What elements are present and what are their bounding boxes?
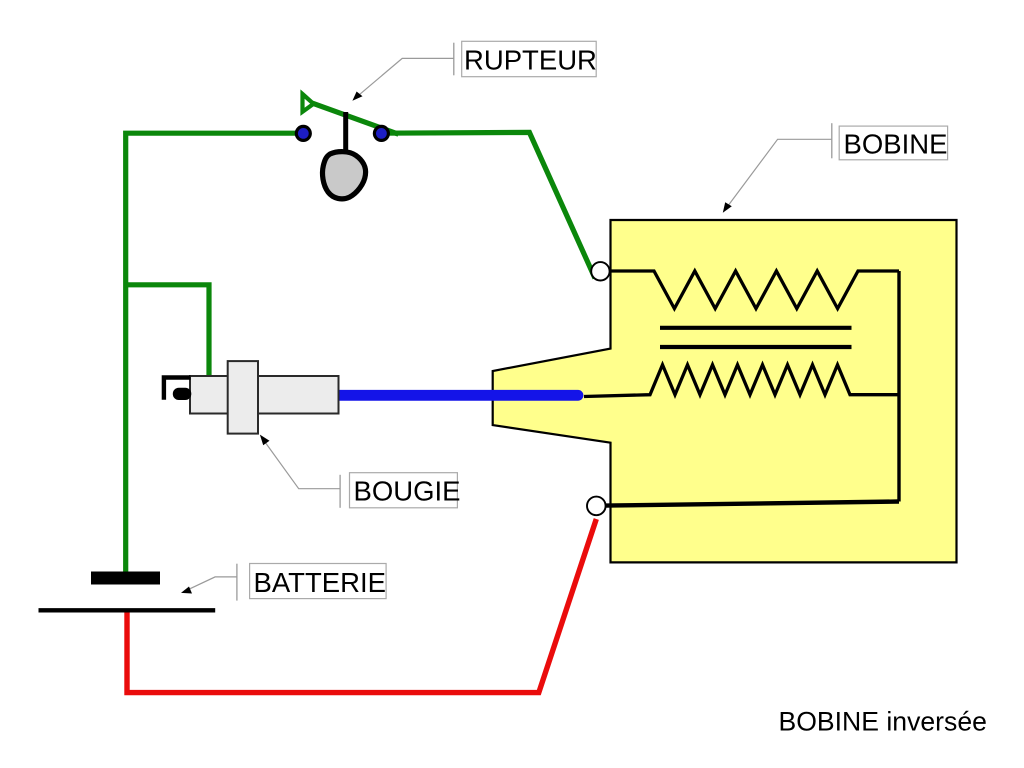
core line lower — [660, 345, 852, 349]
spark plug center electrode — [173, 388, 192, 400]
label RUPTEUR tick — [453, 43, 455, 76]
label BOBINE box — [839, 126, 947, 160]
battery positive plate (thick) — [91, 572, 160, 585]
cam follower rod (black) — [343, 112, 348, 154]
battery negative plate (thin) — [39, 608, 216, 612]
label BATTERIE box — [250, 564, 387, 599]
breaker lever arm (green) — [313, 103, 399, 134]
coil body (BOBINE yellow box with funnel) — [493, 220, 957, 562]
high tension lead (blue) — [340, 390, 579, 401]
label BATTERIE leader arrowhead — [181, 587, 192, 594]
label BOUGIE leader line — [261, 437, 340, 489]
label RUPTEUR leader arrowhead — [352, 92, 362, 101]
label BOUGIE leader arrowhead — [260, 435, 270, 446]
wire: green branch to spark plug — [124, 285, 210, 379]
svg-text:BOUGIE: BOUGIE — [354, 476, 461, 507]
label BATTERIE tick — [236, 564, 238, 601]
spark plug body — [190, 376, 339, 414]
spark plug ground electrode hook — [164, 378, 191, 400]
label RUPTEUR leader line — [354, 58, 454, 99]
coil top terminal (circle) — [591, 262, 609, 280]
breaker pivot triangle — [303, 94, 314, 112]
core line upper — [660, 326, 852, 330]
svg-text:BOBINE inversée: BOBINE inversée — [779, 707, 987, 737]
label BATTERIE leader line — [185, 577, 237, 591]
svg-text:BOBINE: BOBINE — [844, 129, 948, 160]
svg-text:BATTERIE: BATTERIE — [254, 567, 386, 598]
coil bottom wire to terminal — [605, 502, 899, 506]
breaker contact right (blue dot) — [374, 126, 388, 140]
wire: green from breaker right contact to coil top terminal — [381, 132, 595, 278]
coil right vertical wire — [897, 271, 900, 502]
svg-text:RUPTEUR: RUPTEUR — [464, 44, 597, 75]
wire: green battery positive up to breaker left contact — [126, 133, 302, 574]
coil bottom terminal (circle) — [587, 497, 606, 516]
label BOUGIE tick — [339, 475, 341, 508]
wire: red ground return battery to coil — [127, 519, 596, 693]
primary winding (top zigzag) — [608, 271, 899, 309]
label BOUGIE box — [350, 473, 458, 508]
breaker contact left (blue dot) — [296, 126, 310, 140]
spark plug hex insulator — [228, 361, 258, 434]
label BOBINE leader line — [725, 139, 832, 210]
label RUPTEUR box — [462, 41, 597, 76]
secondary winding (bottom zigzag) — [584, 365, 899, 397]
label BOBINE leader arrowhead — [723, 202, 732, 212]
label BOBINE tick — [831, 123, 833, 158]
cam lobe (gray) — [323, 152, 366, 199]
